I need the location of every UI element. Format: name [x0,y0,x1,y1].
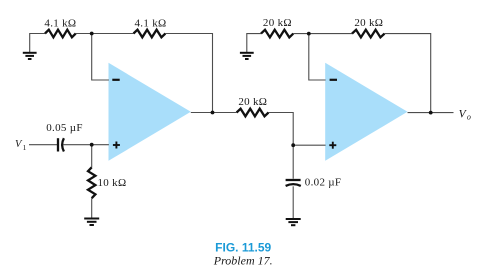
svg-text:20 kΩ: 20 kΩ [354,17,383,29]
svg-text:10 kΩ: 10 kΩ [98,177,127,189]
resistor R1 4.1 k [45,30,76,38]
U1 plus pin [113,142,120,149]
wire [293,33,352,35]
wire [385,34,431,113]
svg-text:0.05 µF: 0.05 µF [46,122,83,134]
wire [165,34,212,113]
node A junction [90,32,94,36]
svg-text:1: 1 [23,143,27,152]
svg-text:0.02 µF: 0.02 µF [305,176,342,188]
resistor R3 20 k [261,30,293,38]
ground G2 [240,52,254,54]
wire [247,34,261,53]
wire [91,145,93,168]
svg-text:o: o [467,112,471,121]
svg-text:20 kΩ: 20 kΩ [238,96,267,108]
svg-text:4.1 kΩ: 4.1 kΩ [135,18,167,30]
wire [292,145,294,179]
wire [76,33,134,35]
U1 minus pin [112,79,119,81]
U2 minus pin [330,79,337,81]
wire [269,113,294,146]
node D junction [291,143,295,147]
resistor R4 20 k [352,30,385,38]
ground G1 [23,52,37,54]
wire [63,144,109,146]
svg-text:20 kΩ: 20 kΩ [263,17,292,29]
ground G3 [84,218,99,220]
resistor R2 4.1 k [134,30,166,38]
node B junction [211,111,215,115]
resistor R6 10 k [88,167,95,198]
wire [292,186,294,218]
node C junction [90,143,94,147]
wire [309,34,326,80]
U2 plus pin [329,142,336,149]
wire [91,198,93,217]
capacitor C2 0.02uF plates [286,179,301,181]
ground G4 [286,218,301,220]
node E junction [307,32,311,36]
svg-text:4.1 kΩ: 4.1 kΩ [44,18,76,30]
capacitor C1 0.05uF plates [57,138,59,151]
wire [408,112,454,114]
wire [293,144,325,146]
op-amp U1 [109,63,191,161]
wire [92,34,109,81]
wire [191,112,237,114]
wire [29,144,57,146]
svg-text:Problem 17.: Problem 17. [213,254,273,268]
node F junction [429,111,433,115]
svg-text:FIG. 11.59: FIG. 11.59 [215,241,271,255]
wire [30,34,45,53]
resistor R5 20 k [237,109,269,117]
op-amp U2 [325,63,407,161]
